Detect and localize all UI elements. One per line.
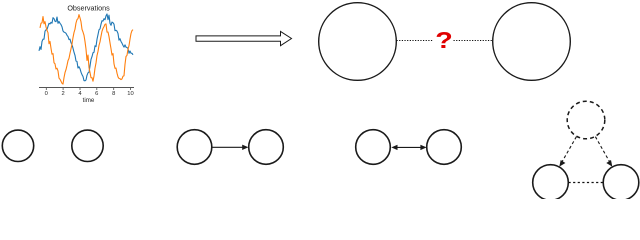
pair1 circle B [72,130,103,161]
svg-text:Observations: Observations [67,4,110,13]
big circle left [319,3,397,81]
dotted link left segment [397,40,433,42]
blue signal trace [39,14,133,81]
dashed arrow top to bottom-right [595,137,612,167]
double arrow E F [391,145,426,150]
pair2 circle C [177,130,212,165]
x axis ticks [46,88,130,90]
svg-text:0: 0 [45,91,48,97]
big circle right [493,3,571,81]
x axis line [39,87,134,89]
dotted line between bottom circles [569,182,603,184]
big hollow arrow [196,31,292,45]
triangle bottom left circle [533,165,569,201]
pair1 circle A [2,130,33,161]
svg-text:6: 6 [95,91,98,97]
dashed arrow top to bottom-left [559,137,576,167]
arrow C to D [213,145,249,150]
orange signal trace [40,15,133,85]
pair3 circle E [356,130,391,165]
red question mark [435,27,453,54]
triangle top dashed circle [567,101,605,139]
svg-text:2: 2 [61,91,64,97]
x tick labels [45,91,134,97]
pair3 circle F [427,130,462,165]
svg-text:10: 10 [127,91,133,97]
dotted link right segment [454,40,493,42]
svg-text:time: time [83,97,95,104]
triangle bottom right circle [603,165,639,201]
pair2 circle D [249,130,284,165]
svg-text:?: ? [435,27,453,54]
svg-text:8: 8 [112,91,115,97]
